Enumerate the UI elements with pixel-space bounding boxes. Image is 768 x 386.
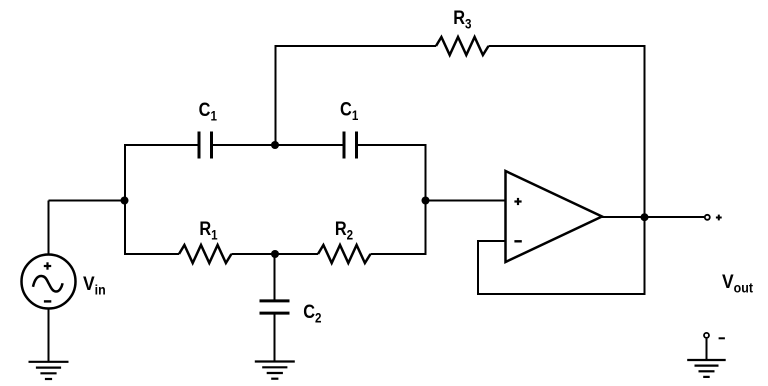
label C1 (left capacitor) xyxy=(199,99,217,124)
wire op-amp output xyxy=(602,216,704,218)
wire between node and R2 xyxy=(275,253,318,255)
label Vin xyxy=(83,273,106,298)
resistor row: wire left of R1 xyxy=(124,253,179,255)
op-amp minus symbol xyxy=(514,240,521,242)
ground bottom right xyxy=(687,360,726,377)
wire right of R2 xyxy=(371,253,427,255)
label C1 (right capacitor) xyxy=(340,98,358,123)
node: junction dot left xyxy=(121,197,129,205)
wire C2 bottom lead xyxy=(274,315,276,362)
op-amp U1 triangle xyxy=(506,171,603,262)
label R3 xyxy=(453,7,471,32)
ground terminal circle (bottom right) xyxy=(704,333,709,338)
wire caps row right segment xyxy=(358,144,427,146)
ground under Vin xyxy=(29,362,69,379)
resistor R2 xyxy=(318,245,371,263)
resistor R1 xyxy=(179,245,231,263)
node: junction dot output xyxy=(641,213,649,221)
Vin plus sign xyxy=(44,262,51,269)
op-amp plus symbol xyxy=(514,198,521,205)
label R1 xyxy=(199,218,217,243)
ground under C2 xyxy=(255,362,295,379)
Vin minus sign xyxy=(44,300,51,302)
wire ground terminal lead xyxy=(706,339,708,360)
node: junction dot resistor row xyxy=(271,250,279,258)
label C2 xyxy=(303,301,321,326)
capacitor C1 (left) xyxy=(199,132,212,159)
label R2 xyxy=(335,218,353,243)
output terminal circle xyxy=(705,215,710,220)
wire between R1 and node xyxy=(231,253,275,255)
wire to op-amp noninverting input xyxy=(426,200,506,202)
capacitor C1 (right) xyxy=(344,132,357,159)
wire right vertical branch xyxy=(425,144,427,255)
wire Vin top lead xyxy=(48,201,50,255)
source Vin circle xyxy=(22,255,76,309)
label Vout xyxy=(722,270,754,295)
wire mid vertical to R3 row xyxy=(275,46,277,145)
wire tall right vertical (output to R3 and feedback) xyxy=(644,45,646,295)
wire inverting input stub xyxy=(477,240,506,242)
capacitor C2 xyxy=(260,301,290,313)
wire R3 row left segment xyxy=(276,46,437,47)
wire R3 row right segment xyxy=(489,45,646,47)
wire left vertical branch xyxy=(124,144,126,255)
Vin sine wave xyxy=(33,276,63,292)
wire caps row left segment xyxy=(125,144,198,146)
wire Vin bottom lead xyxy=(48,309,50,362)
wire C2 top lead xyxy=(274,254,276,301)
output terminal plus sign xyxy=(716,215,722,221)
wire caps row middle segment xyxy=(213,144,343,146)
resistor R3 xyxy=(436,37,489,55)
wire from Vin to left node xyxy=(49,200,126,202)
node: junction dot caps row xyxy=(271,141,279,149)
node: junction dot op-amp input xyxy=(422,197,430,205)
wire feedback loop xyxy=(478,241,646,294)
ground terminal minus sign xyxy=(719,337,725,339)
